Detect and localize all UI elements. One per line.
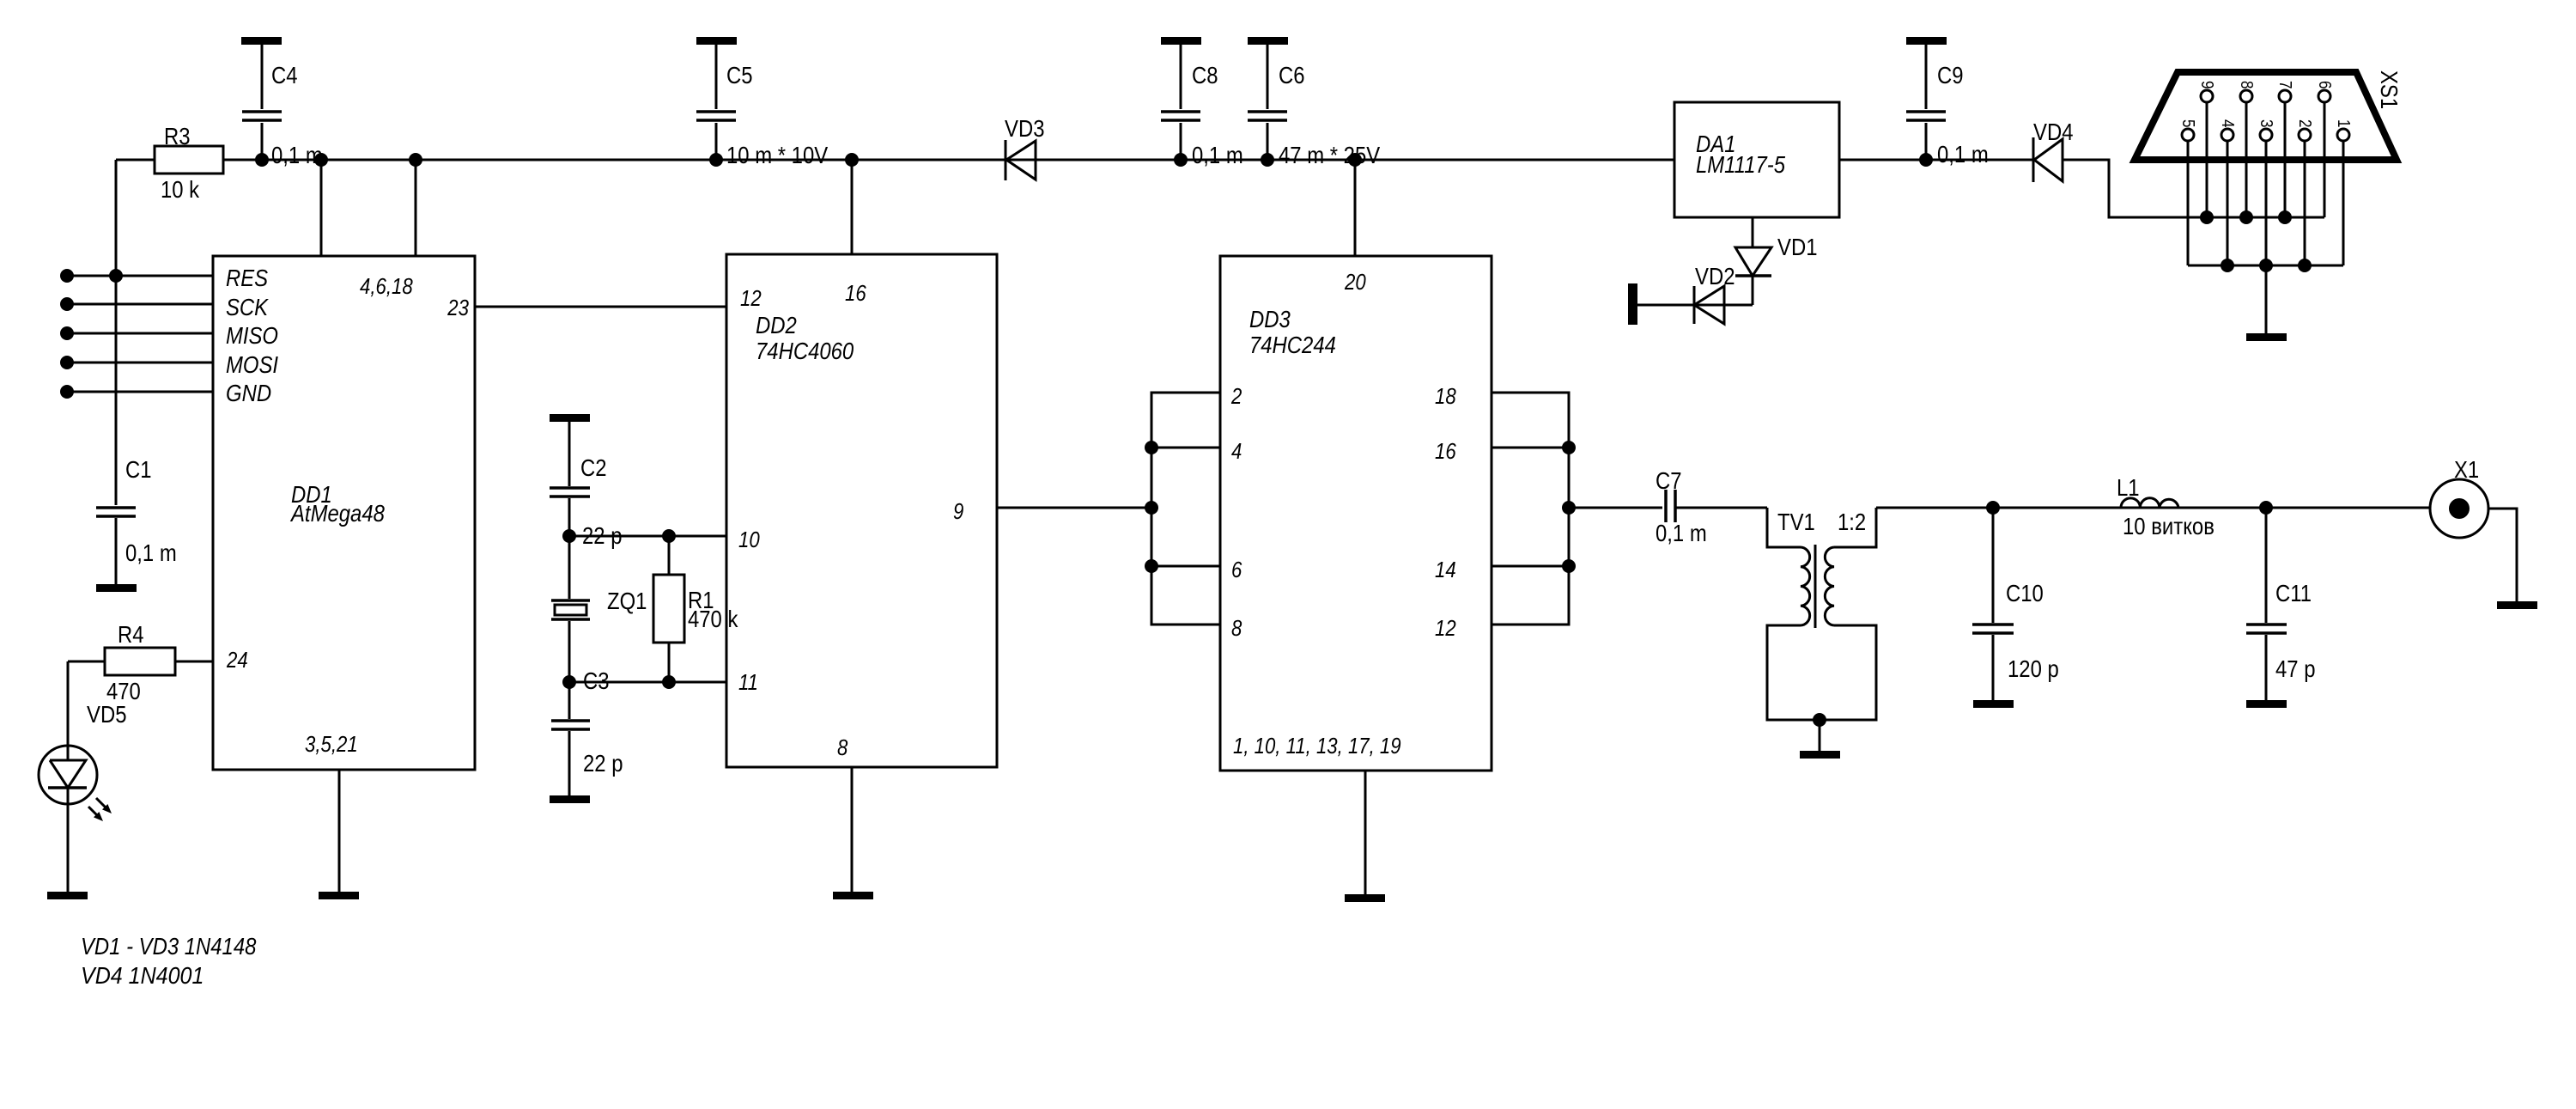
svg-text:0,1 m: 0,1 m xyxy=(1192,142,1243,168)
wire bus to DD3 pin20 xyxy=(1354,160,1357,256)
svg-text:C7: C7 xyxy=(1656,467,1682,494)
node: DD3 pin20 junction xyxy=(1348,153,1362,167)
svg-text:VD3: VD3 xyxy=(1005,115,1045,142)
svg-text:470 k: 470 k xyxy=(688,606,738,632)
IC DD2 74HC4060 xyxy=(726,254,997,767)
svg-text:3: 3 xyxy=(2257,119,2275,128)
node: C8/bus junction xyxy=(1174,153,1188,167)
ISP pad MOSI xyxy=(60,356,74,369)
capacitor C6 xyxy=(1248,37,1288,45)
svg-text:10 m * 10V: 10 m * 10V xyxy=(726,142,828,168)
svg-text:C11: C11 xyxy=(2275,580,2312,606)
svg-text:C2: C2 xyxy=(580,454,607,481)
ground below C11 xyxy=(2246,700,2287,708)
wire DD2 pin9 to DD3 xyxy=(997,507,1151,509)
wire: DA1 output to VD4 to XS1 xyxy=(1839,160,2324,217)
wire RES xyxy=(67,275,213,277)
wire TV1 to X1 xyxy=(1876,507,2430,509)
ground below VD5 xyxy=(47,892,88,899)
ISP pad MISO xyxy=(60,326,74,340)
ISP pad GND xyxy=(60,385,74,399)
XS1 pin 5 xyxy=(2182,129,2194,141)
node: RES junction xyxy=(109,269,123,283)
svg-text:12: 12 xyxy=(740,285,762,311)
svg-text:0,1 m: 0,1 m xyxy=(125,539,177,566)
node XS1 power net pin9 xyxy=(2200,210,2214,224)
svg-text:14: 14 xyxy=(1435,557,1456,582)
svg-text:VD4: VD4 xyxy=(2033,119,2074,145)
capacitor C7 xyxy=(1666,490,1675,522)
resistor R4 xyxy=(68,661,213,663)
svg-text:23: 23 xyxy=(447,295,469,320)
svg-text:6: 6 xyxy=(2315,81,2334,89)
capacitor C3 xyxy=(568,682,571,795)
node: C9 junction xyxy=(1919,153,1933,167)
svg-text:DD2: DD2 xyxy=(756,312,797,338)
ISP pad RES xyxy=(60,269,74,283)
svg-text:RES: RES xyxy=(226,265,268,291)
svg-text:LM1117-5: LM1117-5 xyxy=(1696,151,1785,178)
svg-text:C9: C9 xyxy=(1937,62,1964,88)
svg-text:C4: C4 xyxy=(271,62,298,88)
svg-text:1:2: 1:2 xyxy=(1838,509,1866,535)
svg-text:1: 1 xyxy=(2334,119,2353,128)
XS1 pin 7 xyxy=(2279,90,2291,102)
ISP pad SCK xyxy=(60,297,74,311)
svg-text:47 p: 47 p xyxy=(2275,655,2316,682)
svg-text:120 p: 120 p xyxy=(2008,655,2059,682)
capacitor C9 xyxy=(1906,37,1947,45)
node XS1 power net pin8 xyxy=(2239,210,2253,224)
wire DD3 output bracket xyxy=(1492,393,1569,625)
wire SCK xyxy=(67,303,213,306)
svg-text:VD5: VD5 xyxy=(87,701,127,728)
node XS1 power net pin7 xyxy=(2278,210,2292,224)
wire TV1 tap to ground xyxy=(1819,720,1821,751)
svg-text:4: 4 xyxy=(1231,438,1242,464)
IC DA1 LM1117-5 xyxy=(1674,102,1839,217)
svg-text:16: 16 xyxy=(1435,438,1456,464)
svg-text:0,1 m: 0,1 m xyxy=(1937,141,1989,168)
svg-text:MOSI: MOSI xyxy=(226,351,278,378)
wire DD3 input bracket xyxy=(1151,393,1220,625)
wire DD3 gnd pins to ground xyxy=(1364,771,1367,894)
ground below DD3 xyxy=(1345,894,1385,902)
ground below XS1 xyxy=(2246,333,2287,341)
svg-text:10 витков: 10 витков xyxy=(2123,513,2215,539)
svg-text:C5: C5 xyxy=(726,62,753,88)
XS1 pin 2 xyxy=(2299,129,2311,141)
wire XS1 ground net xyxy=(2188,265,2343,267)
svg-text:6: 6 xyxy=(1231,557,1242,582)
svg-text:9: 9 xyxy=(2197,81,2216,89)
svg-text:5: 5 xyxy=(2178,119,2197,128)
wire DD1 pin23 to DD2 pin12 xyxy=(475,306,726,308)
svg-text:C6: C6 xyxy=(1279,62,1305,88)
svg-text:VD1 - VD3 1N4148: VD1 - VD3 1N4148 xyxy=(81,933,257,960)
ground below C1 xyxy=(96,584,137,592)
ground below DD2 xyxy=(833,892,873,899)
node XS1 gnd net pin2 xyxy=(2298,259,2312,272)
svg-text:MISO: MISO xyxy=(226,322,278,349)
node C11 junction xyxy=(2259,501,2273,515)
svg-text:20: 20 xyxy=(1344,269,1366,295)
svg-text:TV1: TV1 xyxy=(1777,509,1815,535)
ground below DD1 xyxy=(319,892,359,899)
svg-text:R4: R4 xyxy=(118,621,144,648)
svg-text:L1: L1 xyxy=(2117,474,2140,501)
svg-text:16: 16 xyxy=(845,280,866,306)
svg-text:0,1 m: 0,1 m xyxy=(1656,520,1707,546)
svg-text:ZQ1: ZQ1 xyxy=(607,588,647,614)
wire DD3 outputs to C7 xyxy=(1569,507,1662,509)
node TV1 center tap xyxy=(1813,713,1826,727)
ground below C10 xyxy=(1973,700,2014,708)
XS1 pin 9 xyxy=(2201,90,2213,102)
node input bracket c xyxy=(1145,559,1158,573)
svg-text:1, 10, 11, 13, 17, 19: 1, 10, 11, 13, 17, 19 xyxy=(1233,733,1401,759)
svg-text:8: 8 xyxy=(837,734,848,760)
node: C4/bus junction xyxy=(255,153,269,167)
XS1 pin 3 xyxy=(2260,129,2272,141)
svg-text:DD3: DD3 xyxy=(1249,306,1291,332)
IC DD1 AtMega48 xyxy=(213,256,475,770)
XS1 pin 4 xyxy=(2221,129,2233,141)
node: C5/bus junction xyxy=(709,153,723,167)
svg-text:C3: C3 xyxy=(583,667,610,694)
svg-text:8: 8 xyxy=(2237,81,2256,89)
svg-text:9: 9 xyxy=(953,498,963,524)
svg-text:C10: C10 xyxy=(2006,580,2044,606)
svg-text:C8: C8 xyxy=(1192,62,1218,88)
svg-text:18: 18 xyxy=(1435,383,1456,409)
svg-text:XS1: XS1 xyxy=(2376,70,2403,109)
wire DD2 pin8 to ground xyxy=(851,767,854,892)
IC DD3 74HC244 xyxy=(1220,256,1492,771)
capacitor C4 xyxy=(241,37,282,45)
svg-text:R3: R3 xyxy=(164,123,191,149)
svg-text:47 m * 25V: 47 m * 25V xyxy=(1279,142,1380,168)
node: XTAL2 net at R1 xyxy=(662,675,676,689)
svg-text:74HC4060: 74HC4060 xyxy=(756,338,854,364)
XS1 pin 6 xyxy=(2318,90,2330,102)
wire MISO xyxy=(67,332,213,335)
node output bracket b xyxy=(1562,501,1576,515)
node on bus (DD1 vcc b) xyxy=(409,153,422,167)
capacitor C11 xyxy=(2265,508,2268,700)
svg-text:10 k: 10 k xyxy=(161,176,200,203)
resistor R1 xyxy=(668,536,671,682)
ground below X1 xyxy=(2497,601,2537,609)
wire C2 to DD2 pin10 xyxy=(569,535,726,538)
ground below C3 xyxy=(550,795,590,803)
node on bus (DD1 vcc a) xyxy=(314,153,328,167)
svg-text:VD4 1N4001: VD4 1N4001 xyxy=(81,962,204,989)
connector XS1 shell xyxy=(2135,72,2397,160)
svg-text:4: 4 xyxy=(2218,119,2237,128)
capacitor C5 xyxy=(696,37,737,45)
wire DD1 pins 4,6,18 to bus xyxy=(321,160,416,256)
node: XTAL2 net at C3 xyxy=(562,675,576,689)
svg-text:3,5,21: 3,5,21 xyxy=(305,731,358,757)
wire: R3 left to RES net xyxy=(115,160,118,276)
XS1 pin 8 xyxy=(2240,90,2252,102)
XS1 pin 1 xyxy=(2337,129,2349,141)
node XS1 gnd net pin3 xyxy=(2259,259,2273,272)
svg-text:12: 12 xyxy=(1435,615,1456,641)
svg-text:24: 24 xyxy=(226,647,248,673)
svg-text:C1: C1 xyxy=(125,456,152,483)
svg-text:0,1 m: 0,1 m xyxy=(271,142,323,168)
wire MOSI xyxy=(67,362,213,364)
svg-text:7: 7 xyxy=(2275,81,2294,89)
node: XTAL1 net at R1 xyxy=(662,529,676,543)
svg-text:22 p: 22 p xyxy=(583,750,623,777)
ground bar left of VD2 xyxy=(1628,283,1637,325)
node input bracket b xyxy=(1145,501,1158,515)
capacitor C1 xyxy=(115,276,118,585)
svg-text:74HC244: 74HC244 xyxy=(1249,332,1336,358)
node: DD2 pin16 junction xyxy=(845,153,859,167)
wire GND xyxy=(67,391,213,393)
svg-text:8: 8 xyxy=(1231,615,1242,641)
node output bracket a xyxy=(1562,441,1576,454)
svg-text:4,6,18: 4,6,18 xyxy=(360,273,413,299)
ground below TV1 xyxy=(1800,751,1840,759)
svg-text:10: 10 xyxy=(738,527,760,552)
node: XTAL1 net at C2 xyxy=(562,529,576,543)
svg-text:GND: GND xyxy=(226,380,271,406)
node input bracket a xyxy=(1145,441,1158,454)
svg-text:SCK: SCK xyxy=(226,294,269,320)
node: C6/bus junction xyxy=(1261,153,1274,167)
capacitor C8 xyxy=(1161,37,1201,45)
wire DD1 pins 3,5,21 to ground xyxy=(338,770,341,892)
wire bus to DD2 pin16 xyxy=(851,160,854,254)
svg-text:2: 2 xyxy=(2295,119,2314,128)
svg-text:VD2: VD2 xyxy=(1695,263,1735,289)
crystal ZQ1 xyxy=(568,536,571,682)
node output bracket c xyxy=(1562,559,1576,573)
resistor R3 xyxy=(116,159,155,161)
capacitor C10 xyxy=(1992,508,1995,700)
wire: +9V bus from R3 to DA1 input xyxy=(223,159,1674,161)
capacitor C2 xyxy=(550,414,590,422)
node XS1 gnd net pin4 xyxy=(2221,259,2234,272)
node C10 junction xyxy=(1986,501,2000,515)
svg-text:VD1: VD1 xyxy=(1777,234,1818,260)
wire C3 node to DD2 pin11 xyxy=(569,681,726,684)
svg-text:11: 11 xyxy=(738,669,758,695)
svg-text:2: 2 xyxy=(1230,383,1242,409)
svg-text:AtMega48: AtMega48 xyxy=(289,500,385,527)
